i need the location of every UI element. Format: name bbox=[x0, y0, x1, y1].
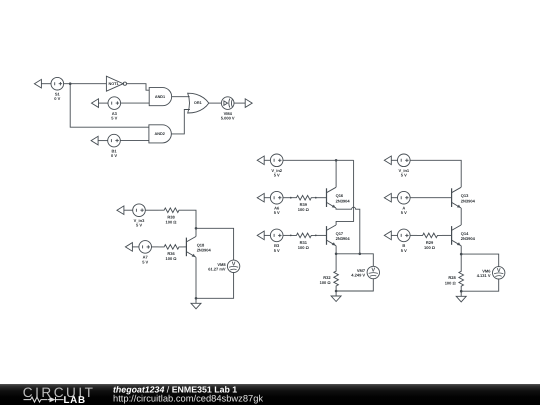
wire output node row to voltmeter VM7 bbox=[336, 254, 373, 266]
svg-text:0 V: 0 V bbox=[111, 153, 117, 158]
svg-text:2N3904: 2N3904 bbox=[461, 198, 476, 203]
svg-text:5 V: 5 V bbox=[401, 173, 407, 178]
svg-text:Q18: Q18 bbox=[197, 242, 205, 247]
transistor Q18 2N3904 bbox=[186, 237, 196, 258]
svg-text:R28: R28 bbox=[448, 275, 456, 280]
node junction collector branch bbox=[195, 227, 198, 230]
label Q18 2N3904 bbox=[197, 242, 212, 252]
label A3 5 V bbox=[111, 111, 117, 121]
svg-text:100 Ω: 100 Ω bbox=[320, 280, 332, 285]
resistor R28 bbox=[459, 254, 464, 291]
terminal at source V_in2 bbox=[257, 156, 264, 165]
voltage source A3 bbox=[108, 97, 121, 110]
ground bbox=[456, 291, 466, 302]
terminal at source A7 bbox=[125, 243, 132, 252]
voltage source V_in2 bbox=[270, 154, 283, 167]
label B1 0 V bbox=[111, 148, 117, 158]
wire terminal to A7 bbox=[132, 246, 139, 248]
svg-text:100 Ω: 100 Ω bbox=[298, 245, 310, 250]
wire S1 to NOT1 bbox=[64, 83, 107, 85]
label A 5 V bbox=[401, 206, 407, 216]
label R28 100 Ω bbox=[445, 275, 457, 285]
svg-text:5 V: 5 V bbox=[274, 173, 280, 178]
label R31 100 Ω bbox=[298, 240, 310, 250]
svg-text:AND1: AND1 bbox=[155, 95, 165, 99]
voltmeter VM6 bbox=[493, 267, 505, 279]
terminal at source A bbox=[384, 193, 391, 202]
svg-text:2N3904: 2N3904 bbox=[197, 248, 212, 253]
wire R29 to Q14 base bbox=[442, 234, 452, 236]
resistor R32 bbox=[334, 254, 339, 291]
voltage source A6 bbox=[270, 191, 283, 204]
resistor R38 bbox=[159, 208, 184, 213]
wire Q13 emitter to Q14 collector bbox=[460, 208, 462, 225]
ground bbox=[191, 298, 201, 309]
inverter NOT1 bbox=[106, 76, 126, 91]
label VM7 4.249 V bbox=[351, 268, 366, 278]
OR gate OR1 bbox=[188, 93, 209, 113]
wire B to R29 bbox=[410, 234, 417, 236]
label Q17 2N3904 bbox=[336, 231, 351, 241]
svg-text:4.249 V: 4.249 V bbox=[351, 273, 365, 278]
node junction emitter/ground bbox=[195, 297, 198, 300]
label R29 100 Ω bbox=[424, 240, 436, 250]
resistor R31 bbox=[290, 233, 317, 238]
label VM4 5.000 V bbox=[221, 111, 235, 121]
wire R36 to Q18 base bbox=[184, 246, 187, 248]
wire B1 to AND2 input B bbox=[120, 140, 149, 142]
svg-text:100 Ω: 100 Ω bbox=[166, 220, 178, 225]
svg-text:100 Ω: 100 Ω bbox=[166, 256, 178, 261]
label S1 0 V bbox=[54, 92, 60, 102]
label AND2 bbox=[155, 132, 165, 136]
wire V_in1 top rail to Q13 collector bbox=[410, 160, 461, 187]
wire R31 to Q17 base bbox=[316, 234, 327, 236]
wire A to Q13 base bbox=[410, 197, 452, 199]
svg-text:Q14: Q14 bbox=[461, 231, 469, 236]
svg-text:4.131 V: 4.131 V bbox=[477, 273, 491, 278]
wire terminal to V_in1 bbox=[391, 159, 397, 161]
transistor Q13 2N3904 bbox=[452, 187, 462, 208]
node junction at S1 branch bbox=[69, 82, 72, 85]
svg-text:http://circuitlab.com/ced84sbw: http://circuitlab.com/ced84sbwz87gk bbox=[113, 394, 263, 404]
wire R38 to collector rail bbox=[184, 210, 197, 236]
wire VM4 to output terminal bbox=[234, 102, 245, 104]
voltage source B1 bbox=[108, 134, 121, 147]
transistor Q14 2N3904 bbox=[452, 225, 462, 246]
label VM6 4.131 V bbox=[477, 268, 492, 278]
label A7 5 V bbox=[142, 255, 148, 265]
svg-text:2N3904: 2N3904 bbox=[336, 236, 351, 241]
label R39 100 Ω bbox=[298, 202, 310, 212]
node junction Q14 emitter bbox=[460, 253, 463, 256]
AND gate AND2 bbox=[149, 125, 171, 143]
terminal at source B1 bbox=[91, 136, 98, 145]
wire NOT1 to AND1 input A bbox=[127, 84, 150, 91]
label R38 100 Ω bbox=[166, 215, 178, 225]
svg-text:5.000 V: 5.000 V bbox=[221, 116, 235, 121]
svg-text:5 V: 5 V bbox=[111, 116, 117, 121]
voltage source A7 bbox=[139, 241, 152, 254]
svg-text:100 Ω: 100 Ω bbox=[445, 280, 457, 285]
wire collector branch to voltmeter VM8 bbox=[196, 228, 234, 260]
transistor Q17 2N3904 bbox=[327, 225, 337, 246]
wire terminal to A3 bbox=[99, 102, 109, 104]
wire terminal to V_in3 bbox=[124, 209, 133, 211]
wire A7 to R36 bbox=[152, 246, 159, 248]
voltage source V_in3 bbox=[133, 204, 146, 217]
wire Q16 emitter with hop over Q17 feed bbox=[336, 207, 360, 254]
wire S1 branch down to AND2 input bbox=[70, 84, 149, 128]
label V_in1 5 V bbox=[398, 168, 409, 178]
node junction R32 ground rail bbox=[335, 290, 338, 293]
svg-text:Q16: Q16 bbox=[336, 193, 344, 198]
label A6 5 V bbox=[274, 206, 280, 216]
resistor R36 bbox=[159, 245, 184, 250]
label Q13 2N3904 bbox=[461, 193, 476, 203]
transistor Q16 2N3904 bbox=[327, 187, 337, 208]
terminal at source S1 bbox=[34, 79, 41, 88]
voltage source A bbox=[398, 191, 411, 204]
logo CIRCUIT bbox=[23, 385, 96, 400]
label Q16 2N3904 bbox=[336, 193, 351, 203]
node junction top rail Q16 bbox=[335, 159, 338, 162]
wire Q17 emitter to output node bbox=[335, 246, 337, 254]
wire A6 to R39 bbox=[283, 197, 291, 199]
wire AND2 output up to OR1 input B bbox=[171, 110, 190, 134]
voltmeter VM7 bbox=[367, 266, 379, 278]
svg-text:5 V: 5 V bbox=[136, 223, 142, 228]
svg-text:5 V: 5 V bbox=[274, 210, 280, 215]
label VM8 61.27 mV bbox=[208, 262, 226, 272]
voltmeter VM8 bbox=[227, 260, 239, 272]
wire terminal to A6 bbox=[264, 197, 270, 199]
label R36 100 Ω bbox=[166, 251, 178, 261]
node junction Q16 emitter bbox=[359, 253, 362, 256]
svg-text:5 V: 5 V bbox=[142, 259, 148, 264]
resistor R39 bbox=[290, 195, 317, 200]
svg-text:61.27 mV: 61.27 mV bbox=[208, 266, 226, 271]
label V_in2 5 V bbox=[271, 168, 282, 178]
svg-text:2N3904: 2N3904 bbox=[461, 236, 476, 241]
label NOT1 bbox=[109, 82, 119, 86]
svg-text:0 V: 0 V bbox=[54, 96, 60, 101]
label V_in3 5 V bbox=[134, 218, 145, 228]
label R32 100 Ω bbox=[320, 275, 332, 285]
terminal at source B bbox=[384, 231, 391, 240]
wire AND1 output to OR1 input A bbox=[172, 96, 190, 98]
svg-text:100 Ω: 100 Ω bbox=[424, 245, 436, 250]
svg-text:AND2: AND2 bbox=[155, 132, 165, 136]
wire terminal to A bbox=[391, 197, 397, 199]
wire terminal to B1 bbox=[98, 140, 108, 142]
wire terminal to B3 bbox=[264, 234, 270, 236]
logo squiggle wire with resistor and diode bbox=[24, 397, 64, 402]
voltmeter VM4 bbox=[221, 97, 234, 110]
wire terminal to V_in2 bbox=[264, 159, 270, 161]
wire Q18 emitter down to ground rail bbox=[195, 257, 197, 298]
output terminal VM4 bbox=[245, 99, 252, 108]
voltage source B3 bbox=[270, 229, 283, 242]
terminal at source A6 bbox=[257, 193, 264, 202]
svg-text:OR1: OR1 bbox=[194, 101, 202, 105]
voltage source S1 bbox=[51, 77, 64, 90]
svg-text:Q17: Q17 bbox=[336, 231, 344, 236]
wire R39 to Q16 base bbox=[316, 197, 327, 199]
wire ground rail to voltmeter VM7 bottom bbox=[336, 279, 373, 291]
wire OR1 output to voltmeter VM4 bbox=[209, 102, 222, 104]
label OR1 bbox=[194, 101, 202, 105]
svg-text:R32: R32 bbox=[323, 275, 331, 280]
wire terminal to S1 bbox=[41, 83, 51, 85]
node junction ground rail bbox=[460, 290, 463, 293]
wire Q14 emitter to output node bbox=[460, 246, 462, 254]
wire rail down to Q17 collector bbox=[336, 160, 354, 225]
label AND1 bbox=[155, 95, 165, 99]
terminal at source V_in1 bbox=[384, 156, 391, 165]
wire rail down to Q16 collector bbox=[335, 160, 337, 187]
wire ground rail to voltmeter VM8 bottom bbox=[196, 273, 234, 299]
svg-text:2N3904: 2N3904 bbox=[336, 198, 351, 203]
svg-text:5 V: 5 V bbox=[274, 248, 280, 253]
svg-text:Q13: Q13 bbox=[461, 193, 469, 198]
wire terminal to B bbox=[391, 234, 397, 236]
wire ground rail to voltmeter VM6 bottom bbox=[461, 279, 499, 291]
node junction Q17 emitter bbox=[335, 253, 338, 256]
label B3 5 V bbox=[274, 243, 280, 253]
svg-text:NOT1: NOT1 bbox=[109, 82, 119, 86]
voltage source V_in1 bbox=[398, 154, 411, 167]
terminal at source A3 bbox=[92, 99, 99, 108]
wire B3 to R31 bbox=[283, 234, 291, 236]
svg-text:100 Ω: 100 Ω bbox=[298, 207, 310, 212]
wire output node row to voltmeter VM6 bbox=[461, 254, 499, 267]
wire V_in3 to R38 bbox=[145, 209, 158, 211]
wire A3 to AND1 input B bbox=[121, 102, 150, 104]
footer title text bbox=[113, 384, 263, 403]
AND gate AND1 bbox=[149, 88, 171, 106]
svg-text:5 V: 5 V bbox=[401, 248, 407, 253]
terminal at source V_in3 bbox=[117, 206, 124, 215]
logo LAB bbox=[64, 395, 86, 405]
resistor R29 bbox=[417, 233, 442, 238]
svg-text:LAB: LAB bbox=[64, 395, 86, 405]
label B 5 V bbox=[401, 243, 407, 253]
svg-text:5 V: 5 V bbox=[401, 210, 407, 215]
label Q14 2N3904 bbox=[461, 231, 476, 241]
voltage source B bbox=[398, 229, 411, 242]
ground bbox=[331, 291, 341, 302]
wire V_in2 top rail bbox=[283, 159, 354, 161]
terminal at source B3 bbox=[257, 231, 264, 240]
